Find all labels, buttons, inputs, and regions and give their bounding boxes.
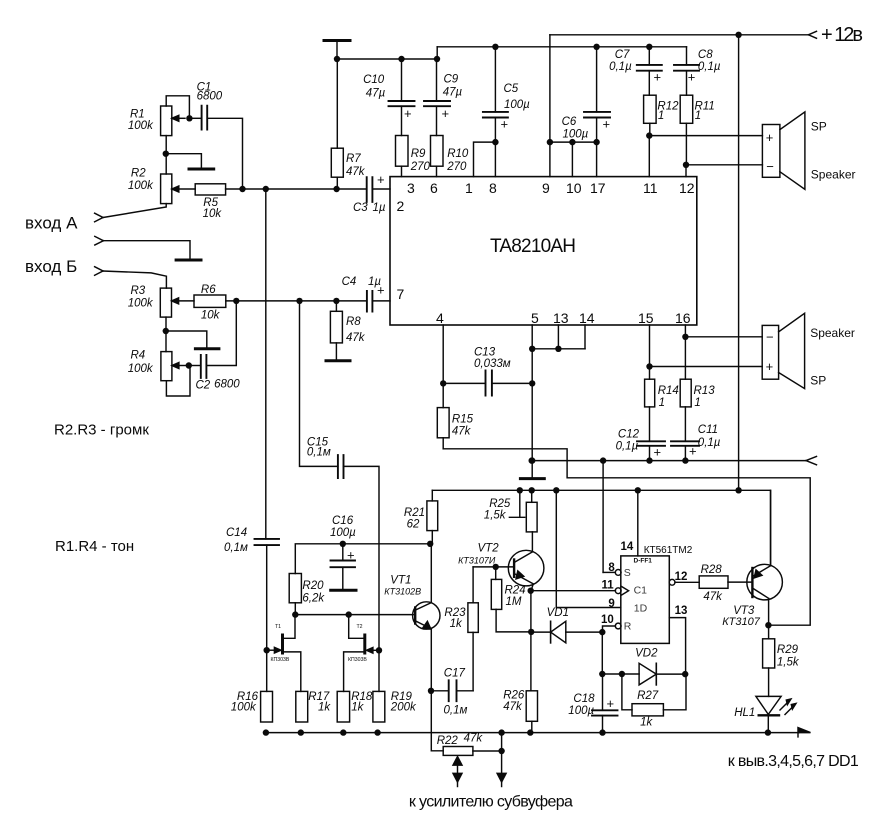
transistor T1: [267, 615, 301, 692]
wire VT1 base: [295, 614, 415, 616]
svg-text:R2: R2: [131, 167, 146, 179]
capacitor C17: [431, 668, 473, 717]
svg-text:+: +: [377, 172, 385, 187]
wire input A: [103, 204, 166, 218]
connector input middle: [95, 236, 190, 258]
node pin9 row: [547, 139, 553, 145]
svg-text:Т2: Т2: [357, 624, 363, 630]
node C5 bottom: [492, 139, 498, 145]
wire riser to rail B: [436, 47, 438, 59]
resistor R8: [330, 301, 365, 359]
ground: [176, 259, 201, 262]
node pin13 row: [555, 346, 561, 352]
resistor R12: [644, 95, 680, 176]
wire VT2 base: [473, 566, 514, 568]
svg-text:R21: R21: [404, 507, 425, 519]
node C13 right: [529, 380, 535, 386]
node C14 drop: [263, 186, 269, 192]
svg-text:47k: 47k: [464, 733, 484, 745]
svg-text:R20: R20: [302, 580, 324, 592]
svg-text:R14: R14: [658, 385, 679, 397]
resistor R27: [622, 674, 686, 729]
svg-text:VT1: VT1: [390, 575, 411, 587]
resistor R17: [296, 691, 332, 722]
wire R1-R2 junction to ground: [166, 136, 202, 174]
svg-text:КТ3102В: КТ3102В: [384, 587, 421, 597]
node R27 left: [619, 671, 625, 677]
wire C16 rail: [295, 544, 430, 574]
svg-text:SP: SP: [811, 119, 827, 133]
svg-text:R22: R22: [437, 735, 459, 747]
svg-text:−: −: [766, 159, 774, 174]
arrow subwoofer out: [497, 773, 506, 786]
ground top: [324, 41, 350, 60]
pin C1 clock: [615, 586, 628, 595]
svg-text:10k: 10k: [201, 310, 221, 322]
svg-text:КП303В: КП303В: [348, 657, 367, 663]
svg-text:0,1м: 0,1м: [307, 447, 331, 459]
wire VT1 emitter riser: [431, 629, 443, 751]
svg-text:R24: R24: [505, 585, 526, 597]
resistor R16: [231, 691, 273, 722]
svg-text:100k: 100k: [128, 298, 154, 310]
transistor VT1: [384, 544, 440, 629]
svg-text:VD1: VD1: [547, 607, 569, 619]
svg-text:100µ: 100µ: [568, 705, 594, 717]
svg-text:9: 9: [542, 180, 550, 196]
ground pin5: [520, 477, 544, 480]
svg-text:C14: C14: [226, 527, 247, 539]
svg-text:C13: C13: [474, 347, 496, 359]
resistor R28: [699, 564, 752, 603]
svg-text:S: S: [624, 567, 631, 579]
svg-text:D-FF1: D-FF1: [634, 558, 653, 565]
node VT2 collector: [528, 588, 534, 594]
svg-text:+: +: [607, 696, 615, 711]
pin 1D wire: [556, 490, 621, 607]
potentiometer R1: [128, 96, 189, 136]
wire rail B: [437, 46, 686, 48]
svg-text:1µ: 1µ: [368, 276, 381, 288]
node R26 bottom: [527, 729, 533, 735]
svg-text:6: 6: [430, 180, 438, 196]
svg-text:16: 16: [675, 310, 691, 326]
svg-text:+: +: [766, 359, 774, 374]
wire speaker2 minus: [685, 336, 762, 338]
svg-text:47k: 47k: [452, 426, 472, 438]
svg-text:47k: 47k: [503, 701, 523, 713]
svg-text:1: 1: [658, 110, 664, 122]
svg-text:+: +: [654, 70, 662, 85]
node C18 bottom: [599, 729, 605, 735]
svg-text:1k: 1k: [318, 702, 331, 714]
connector input A: [25, 213, 103, 232]
svg-text:1D: 1D: [634, 603, 648, 615]
node R22 right: [498, 748, 504, 754]
svg-text:17: 17: [590, 180, 606, 196]
svg-text:13: 13: [553, 310, 569, 326]
capacitor C2: [189, 304, 240, 392]
wire pin9 riser: [549, 35, 551, 177]
svg-text:4: 4: [436, 310, 444, 326]
node 1D riser top: [553, 487, 559, 493]
resistor R7: [331, 59, 365, 189]
svg-text:+: +: [442, 106, 450, 121]
svg-text:100k: 100k: [128, 180, 154, 192]
capacitor C5: [474, 47, 531, 177]
pin R circle: [615, 623, 621, 629]
node C1 drop: [239, 186, 245, 192]
svg-text:47k: 47k: [346, 332, 366, 344]
ground: [195, 347, 219, 350]
svg-text:C17: C17: [444, 668, 466, 680]
wire speaker2 plus: [650, 366, 763, 368]
svg-text:6800: 6800: [214, 379, 240, 391]
resistor R24: [491, 567, 531, 632]
node S riser top: [600, 457, 606, 463]
svg-text:14: 14: [579, 310, 595, 326]
svg-text:КП303В: КП303В: [271, 657, 290, 663]
node T2 drain: [346, 611, 352, 617]
resistor R10: [431, 136, 469, 177]
svg-text:R6: R6: [201, 284, 216, 296]
svg-text:КТ3107И: КТ3107И: [458, 556, 496, 566]
resistor R13: [680, 325, 715, 441]
svg-text:0,033м: 0,033м: [474, 358, 511, 370]
svg-text:6800: 6800: [197, 90, 223, 102]
capacitor C10: [363, 59, 414, 136]
svg-text:R13: R13: [694, 385, 716, 397]
wire input B: [103, 271, 166, 288]
svg-text:7: 7: [397, 286, 405, 302]
svg-text:VD2: VD2: [635, 648, 658, 660]
svg-text:10: 10: [601, 614, 614, 626]
wire R22 right riser: [501, 733, 503, 773]
svg-text:1,5k: 1,5k: [777, 657, 800, 669]
wire R15 to VT3 line: [443, 449, 810, 625]
node C16 top: [340, 541, 346, 547]
wire R3-R4 junction to ground: [166, 317, 207, 352]
svg-text:вход Б: вход Б: [25, 257, 77, 276]
svg-text:VT2: VT2: [478, 543, 500, 555]
wire pin5 to ground: [531, 325, 533, 477]
node C18 top: [599, 671, 605, 677]
svg-text:+: +: [654, 445, 662, 460]
capacitor C11: [671, 424, 721, 461]
node R24 top: [493, 564, 499, 570]
svg-text:100µ: 100µ: [504, 99, 530, 111]
wire row A: [226, 188, 367, 190]
wire speaker1 plus: [649, 135, 762, 137]
capacitor C4: [342, 276, 390, 312]
node pin11 speaker: [646, 132, 652, 138]
potentiometer R2: [128, 167, 195, 203]
node C9 top: [434, 56, 440, 62]
svg-text:+ 12в: + 12в: [821, 24, 863, 46]
svg-text:10: 10: [566, 180, 582, 196]
potentiometer R3: [128, 285, 194, 317]
node R19 bottom: [374, 729, 380, 735]
svg-text:R28: R28: [701, 564, 723, 576]
svg-text:к усилителю субвуфера: к усилителю субвуфера: [409, 794, 573, 811]
resistor R29: [763, 625, 800, 696]
resistor R5: [195, 184, 225, 220]
capacitor C14: [224, 189, 279, 691]
diode VD1: [531, 607, 602, 643]
wire pin10 riser: [571, 142, 573, 177]
svg-text:13: 13: [675, 605, 688, 617]
svg-text:HL1: HL1: [734, 707, 755, 719]
svg-text:R7: R7: [346, 153, 361, 165]
node +12 bus top: [735, 32, 741, 38]
node R7 bottom: [333, 186, 339, 192]
node pin10: [569, 139, 575, 145]
pin 13 wire: [669, 618, 685, 671]
ground: [326, 359, 350, 362]
resistor R25: [484, 490, 537, 532]
svg-text:КТ561ТМ2: КТ561ТМ2: [644, 545, 693, 556]
svg-text:R26: R26: [503, 690, 525, 702]
svg-text:R29: R29: [777, 644, 799, 656]
wire VT2 collector node: [531, 591, 616, 691]
resistor R18: [337, 691, 373, 722]
svg-text:9: 9: [608, 598, 614, 610]
svg-text:R10: R10: [447, 148, 469, 160]
node R1 wiper: [186, 115, 192, 121]
svg-text:1µ: 1µ: [373, 202, 386, 214]
speaker SP1: [762, 112, 855, 189]
svg-text:100k: 100k: [231, 702, 257, 714]
svg-text:100k: 100k: [128, 120, 154, 132]
svg-text:C6: C6: [562, 116, 577, 128]
svg-text:100k: 100k: [128, 363, 154, 375]
svg-text:47k: 47k: [346, 166, 366, 178]
wire +12 bus: [738, 35, 740, 491]
svg-text:0,1µ: 0,1µ: [616, 441, 639, 453]
svg-text:C18: C18: [573, 693, 595, 705]
svg-text:12: 12: [675, 571, 688, 583]
svg-text:C10: C10: [363, 74, 385, 86]
svg-text:11: 11: [602, 579, 615, 591]
svg-text:C3: C3: [353, 202, 368, 214]
node C7 top: [646, 44, 652, 50]
svg-text:C16: C16: [332, 515, 354, 527]
node T1 gate: [264, 647, 270, 653]
svg-text:R4: R4: [131, 350, 146, 362]
svg-text:+: +: [501, 117, 509, 132]
node C12 bottom: [646, 457, 652, 463]
capacitor C16: [330, 515, 356, 590]
transistor VT2: [458, 532, 544, 591]
resistor R21: [404, 490, 438, 544]
node R24 bottom: [528, 629, 534, 635]
svg-text:3: 3: [407, 180, 415, 196]
node R17 bottom: [298, 729, 304, 735]
flip-flop DD1 KT561TM2: [601, 541, 693, 644]
wire mute rail: [532, 460, 806, 462]
capacitor C15: [300, 301, 380, 692]
svg-text:R3: R3: [131, 285, 146, 297]
svg-text:0,1м: 0,1м: [444, 705, 468, 717]
node R25 top: [529, 487, 535, 493]
svg-text:−: −: [766, 330, 774, 345]
resistor R9: [396, 136, 431, 177]
node VT3 collector: [765, 622, 771, 628]
svg-text:R27: R27: [637, 690, 659, 702]
resistor R20: [289, 574, 325, 615]
svg-text:0,1µ: 0,1µ: [609, 61, 632, 73]
node VT1 collector: [427, 541, 433, 547]
svg-text:47µ: 47µ: [443, 87, 463, 99]
node R1/R2: [163, 151, 169, 157]
wire VD1 to VD2 riser: [601, 632, 603, 674]
node mute rail left: [529, 457, 535, 463]
svg-text:R9: R9: [411, 148, 426, 160]
svg-text:Speaker: Speaker: [810, 326, 855, 340]
svg-text:8: 8: [489, 180, 497, 196]
svg-text:C12: C12: [618, 429, 640, 441]
svg-text:R8: R8: [346, 316, 361, 328]
node C15 riser: [296, 298, 302, 304]
svg-text:10k: 10k: [203, 208, 223, 220]
svg-text:C8: C8: [698, 49, 713, 61]
capacitor C7: [609, 47, 662, 95]
svg-text:0,1м: 0,1м: [224, 542, 248, 554]
capacitor C18: [568, 674, 617, 733]
node pin15 speaker: [646, 363, 652, 369]
node T2 gate: [376, 647, 382, 653]
node +12 bus bottom: [735, 487, 741, 493]
wire rail A: [337, 58, 437, 60]
node R4 wiper: [186, 362, 192, 368]
LED HL1: [734, 696, 796, 732]
resistor R19: [373, 691, 417, 722]
svg-text:100µ: 100µ: [563, 129, 589, 141]
resistor R26: [503, 690, 537, 733]
node pin16 speaker: [682, 334, 688, 340]
svg-text:+: +: [603, 117, 611, 132]
connector mute: [806, 456, 817, 464]
svg-text:5: 5: [531, 310, 539, 326]
node R16 bottom: [263, 729, 269, 735]
node pin4 C13: [440, 380, 446, 386]
svg-text:к выв.3,4,5,6,7 DD1: к выв.3,4,5,6,7 DD1: [728, 753, 859, 770]
svg-text:14: 14: [621, 541, 634, 553]
svg-text:+: +: [688, 70, 696, 85]
node C2 riser: [233, 298, 239, 304]
svg-text:1: 1: [465, 180, 473, 196]
node C11 bottom: [682, 457, 688, 463]
svg-text:R15: R15: [452, 414, 474, 426]
capacitor C3: [353, 172, 390, 214]
svg-text:15: 15: [638, 310, 654, 326]
svg-text:6,2k: 6,2k: [302, 593, 325, 605]
svg-text:C7: C7: [615, 49, 630, 61]
node R22 right top: [498, 729, 504, 735]
svg-text:1k: 1k: [351, 702, 364, 714]
svg-text:270: 270: [446, 161, 467, 173]
svg-text:C1: C1: [634, 585, 648, 597]
capacitor C8: [674, 47, 721, 95]
svg-text:вход А: вход А: [25, 214, 78, 233]
svg-text:+: +: [404, 106, 412, 121]
svg-text:47k: 47k: [703, 591, 723, 603]
svg-text:1: 1: [695, 110, 701, 122]
connector input B: [25, 257, 103, 276]
capacitor C1: [189, 81, 242, 186]
pin 14 riser: [637, 490, 639, 556]
svg-text:C11: C11: [698, 424, 718, 436]
transistor T2: [344, 615, 379, 692]
svg-text:R2.R3 - громк: R2.R3 - громк: [54, 422, 149, 439]
node R3/R4: [163, 328, 169, 334]
wire row B: [226, 300, 367, 302]
svg-text:12: 12: [679, 180, 695, 196]
svg-text:62: 62: [407, 519, 420, 531]
wire +12 rail lower: [432, 490, 770, 566]
svg-text:1: 1: [659, 397, 665, 409]
svg-text:КТ3107: КТ3107: [722, 616, 761, 628]
node pin17: [593, 139, 599, 145]
svg-text:R25: R25: [489, 498, 511, 510]
svg-text:C2: C2: [196, 379, 211, 391]
svg-text:1,5k: 1,5k: [484, 510, 507, 522]
svg-text:+: +: [766, 130, 774, 145]
resistor R23: [444, 567, 478, 691]
wire pin17 riser: [596, 142, 598, 177]
svg-text:1k: 1k: [450, 618, 463, 630]
svg-text:C4: C4: [342, 276, 357, 288]
node R18 bottom: [340, 729, 346, 735]
svg-text:2: 2: [397, 198, 405, 214]
node R8 top: [333, 298, 339, 304]
svg-text:11: 11: [643, 180, 658, 196]
svg-text:1k: 1k: [640, 717, 653, 729]
resistor R11: [680, 95, 715, 176]
stub near R25: [509, 490, 524, 517]
svg-text:C5: C5: [504, 83, 519, 95]
node rail A left: [334, 56, 340, 62]
resistor R6: [194, 284, 226, 322]
node HL1 bottom: [765, 729, 771, 735]
svg-text:TA8210AH: TA8210AH: [490, 236, 576, 257]
svg-text:Т1: Т1: [275, 624, 281, 630]
connector +12v: [808, 24, 863, 46]
svg-text:+: +: [689, 444, 697, 459]
svg-text:47µ: 47µ: [366, 88, 386, 100]
svg-text:R1: R1: [130, 108, 145, 120]
capacitor C9: [424, 59, 462, 136]
node pin13 bottom: [682, 671, 688, 677]
pin S wire: [603, 461, 621, 576]
capacitor C12: [616, 429, 665, 461]
node C5 top: [492, 44, 498, 50]
svg-text:+: +: [347, 548, 355, 563]
svg-text:0,1µ: 0,1µ: [698, 437, 721, 449]
wire pins 5-13-14: [532, 325, 585, 349]
node VD1 right: [599, 629, 605, 635]
node C6 top: [593, 44, 599, 50]
node R20 bottom: [292, 611, 298, 617]
wire rail C +12V: [550, 34, 809, 36]
speaker SP2: [762, 313, 855, 388]
ground: [189, 168, 214, 171]
node pin5 mute: [529, 457, 535, 463]
node pin5 row13: [529, 346, 535, 352]
potentiometer R4: [128, 350, 190, 397]
wire bottom rail: [266, 728, 811, 738]
svg-text:C9: C9: [444, 74, 459, 86]
